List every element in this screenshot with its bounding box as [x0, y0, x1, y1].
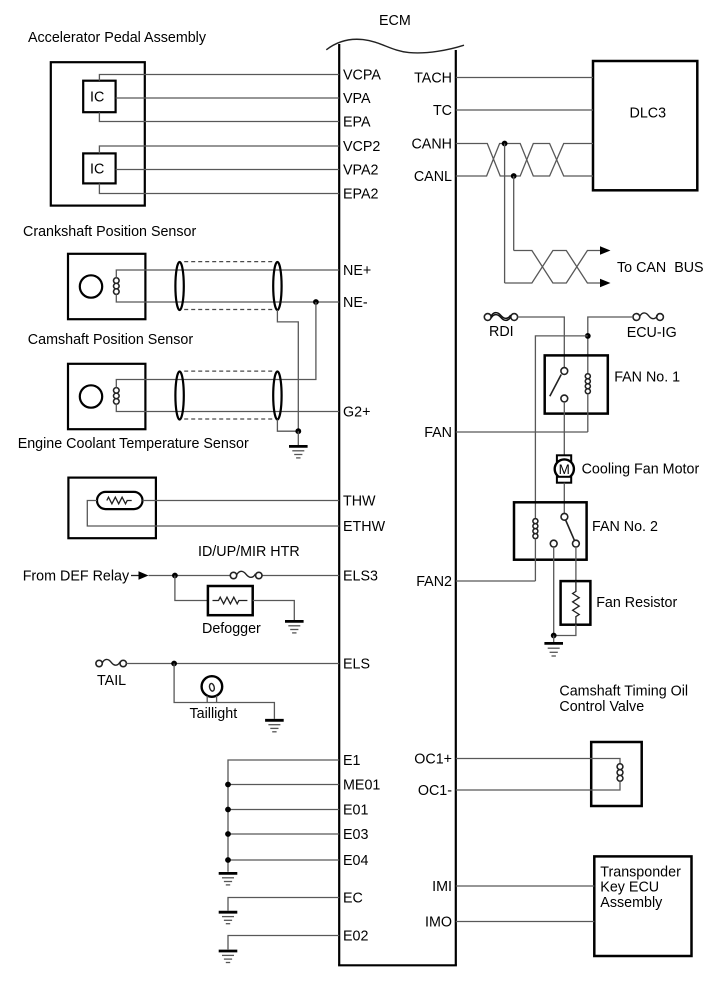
- wire G2+: [116, 404, 339, 411]
- ECT sensor box: [68, 478, 155, 539]
- wire ELS: [126, 663, 339, 665]
- transponder key ECU box: [594, 856, 691, 956]
- fusible link RDI: [484, 314, 491, 321]
- arrow CAN bus lower: [600, 279, 611, 287]
- wire E01: [228, 809, 339, 811]
- ECM wavy top edge: [326, 39, 464, 53]
- Accelerator Pedal Assembly section: [28, 30, 339, 206]
- svg-text:E02: E02: [343, 929, 368, 945]
- wire OC1+: [456, 759, 620, 764]
- wire ground stub: [297, 431, 299, 446]
- wire relay2 left contact to ground: [553, 547, 555, 636]
- svg-text:ME01: ME01: [343, 778, 380, 794]
- wire relay1 switch to motor: [563, 402, 565, 455]
- left pin labels: [343, 68, 386, 945]
- wire relay2 right contact to resistor: [575, 547, 577, 581]
- pickup coil L1: [114, 278, 120, 295]
- wire NE+: [116, 270, 339, 278]
- RDI / ECU-IG feed section: [484, 313, 676, 519]
- node fan ground junction: [551, 633, 557, 639]
- wire EC: [228, 898, 339, 911]
- svg-text:Camshaft Timing Oil: Camshaft Timing Oil: [559, 684, 688, 700]
- wire crank shield drain: [277, 310, 298, 431]
- svg-text:G2+: G2+: [343, 405, 370, 421]
- svg-text:TAIL: TAIL: [97, 673, 126, 689]
- To CAN BUS section: [505, 246, 704, 287]
- taillight bulb: [202, 676, 223, 697]
- arrow from DEF relay: [131, 575, 139, 577]
- wire CANH (twisted pair upper start): [456, 144, 593, 177]
- shield oval left (crank): [175, 262, 183, 310]
- wire VCPA: [99, 75, 339, 81]
- wire THW: [143, 500, 340, 502]
- svg-text:Control Valve: Control Valve: [559, 699, 644, 715]
- motor circle M1: [555, 459, 574, 478]
- DLC3 box: [593, 61, 697, 190]
- svg-text:ID/UP/MIR HTR: ID/UP/MIR HTR: [198, 544, 300, 560]
- relay1 coil: [585, 374, 590, 394]
- wire E03: [228, 833, 339, 835]
- svg-text:IMO: IMO: [425, 915, 452, 931]
- svg-text:CANL: CANL: [414, 169, 452, 185]
- node E03 junction: [225, 831, 231, 837]
- wire CAN bus upper: [514, 251, 601, 284]
- shield oval left (cam): [175, 372, 183, 420]
- wire ECM right edge: [455, 50, 457, 965]
- svg-text:EC: EC: [343, 891, 363, 907]
- wire relay2 coil to FAN2 pin: [534, 539, 536, 581]
- node shield ground junction: [295, 428, 301, 434]
- wire E04: [228, 859, 339, 861]
- sensor rotor circle: [80, 385, 102, 407]
- svg-text:FAN: FAN: [424, 425, 452, 441]
- wire EPA: [99, 112, 339, 121]
- svg-text:E01: E01: [343, 803, 368, 819]
- wire VPA2: [116, 169, 340, 171]
- wire motor to FAN2 switch: [563, 483, 565, 514]
- svg-text:NE+: NE+: [343, 263, 371, 279]
- wire ME01: [228, 784, 339, 786]
- wire NE-: [116, 294, 339, 302]
- node CANH tap: [502, 141, 508, 147]
- node E01 junction: [225, 807, 231, 813]
- svg-text:TACH: TACH: [414, 71, 452, 87]
- wire FAN: [456, 431, 588, 433]
- ECM body: [326, 13, 464, 965]
- IC U1 box: [83, 81, 115, 113]
- svg-text:E03: E03: [343, 827, 368, 843]
- wire ECM bottom edge: [338, 964, 457, 966]
- OCV box: [591, 742, 642, 806]
- Transponder Key ECU section: [456, 856, 692, 956]
- svg-text:Crankshaft Position Sensor: Crankshaft Position Sensor: [23, 224, 196, 240]
- wire IMI: [456, 885, 595, 887]
- ground (taillight): [265, 720, 284, 732]
- shield dashed top (crank): [184, 261, 273, 263]
- relay1 switch blade: [550, 375, 561, 397]
- shield oval right (crank): [273, 262, 281, 310]
- svg-text:EPA: EPA: [343, 115, 371, 131]
- OCV coil: [617, 764, 623, 781]
- wire defogger to ground: [253, 601, 295, 621]
- svg-text:M: M: [559, 462, 570, 477]
- svg-text:Cooling Fan Motor: Cooling Fan Motor: [582, 462, 700, 478]
- svg-text:To CAN BUS: To CAN BUS: [617, 260, 704, 276]
- svg-text:Accelerator Pedal Assembly: Accelerator Pedal Assembly: [28, 30, 207, 46]
- IC U2 box: [83, 153, 115, 183]
- node DEF junction: [172, 573, 178, 579]
- wire E02: [228, 936, 339, 950]
- svg-text:OC1-: OC1-: [418, 783, 452, 799]
- wire EPA2: [99, 183, 339, 193]
- svg-text:Transponder: Transponder: [600, 864, 681, 880]
- svg-text:Defogger: Defogger: [202, 621, 261, 637]
- svg-text:VCPA: VCPA: [343, 68, 381, 84]
- ELS3 / Defogger section: [23, 544, 340, 637]
- ground (fan): [544, 643, 563, 656]
- wire taillight branch: [174, 664, 274, 719]
- svg-text:IC: IC: [90, 90, 104, 106]
- shield dashed bottom (cam): [184, 418, 273, 420]
- motor brush top: [557, 455, 571, 461]
- svg-text:Key ECU: Key ECU: [600, 880, 659, 896]
- node TAIL junction: [171, 661, 177, 667]
- svg-text:From DEF Relay: From DEF Relay: [23, 569, 130, 585]
- E-block ground section: [219, 760, 340, 963]
- FAN No. 1 relay section: [456, 355, 680, 455]
- ground (E1/ME01/E01/E03/E04): [219, 873, 238, 885]
- wire resistor to ground: [554, 625, 576, 636]
- wire defogger branch: [175, 576, 208, 601]
- fan resistor box: [561, 581, 591, 625]
- motor brush bottom: [557, 477, 571, 483]
- shield dashed bottom (crank): [184, 309, 273, 311]
- ground (sensor shields): [289, 446, 308, 458]
- Crankshaft Position Sensor section: [23, 224, 339, 431]
- wire RDI to FAN1 switch: [518, 317, 565, 368]
- svg-text:ECM: ECM: [379, 13, 411, 29]
- svg-text:VPA2: VPA2: [343, 163, 379, 179]
- wire ELS3: [149, 575, 340, 577]
- node CANL tap: [511, 173, 517, 179]
- wire FAN2: [456, 580, 536, 582]
- svg-text:FAN2: FAN2: [416, 574, 452, 590]
- thermistor zigzag: [107, 497, 132, 504]
- defogger box: [208, 586, 253, 615]
- svg-text:CANH: CANH: [411, 137, 452, 153]
- svg-text:DLC3: DLC3: [630, 106, 667, 122]
- svg-text:TC: TC: [433, 103, 452, 119]
- svg-text:Camshaft Position Sensor: Camshaft Position Sensor: [28, 332, 194, 348]
- svg-text:VCP2: VCP2: [343, 139, 380, 155]
- wire ETHW: [87, 501, 339, 527]
- node E04 junction: [225, 857, 231, 863]
- svg-text:VPA: VPA: [343, 91, 371, 107]
- fuse ECU-IG: [633, 314, 640, 321]
- shield oval right (cam): [273, 372, 281, 420]
- svg-text:RDI: RDI: [489, 324, 514, 340]
- Engine Coolant Temperature Sensor section: [18, 436, 340, 538]
- svg-text:FAN No. 1: FAN No. 1: [614, 370, 680, 386]
- svg-text:IMI: IMI: [432, 879, 452, 895]
- wire ECM left edge: [338, 44, 340, 965]
- relay1 switch contacts: [561, 368, 568, 375]
- svg-text:IC: IC: [90, 162, 104, 178]
- svg-text:Assembly: Assembly: [600, 895, 663, 911]
- wire cam shield drain: [277, 420, 298, 432]
- svg-text:NE-: NE-: [343, 295, 368, 311]
- DLC3 section: [456, 61, 698, 283]
- resistor R1 zigzag: [573, 581, 580, 625]
- svg-text:ETHW: ETHW: [343, 519, 386, 535]
- wire camshaft signal to NE- node: [116, 302, 316, 388]
- svg-text:ECU-IG: ECU-IG: [627, 325, 677, 341]
- wire E1: [228, 760, 339, 872]
- arrow CAN bus upper: [600, 246, 611, 254]
- wire ground stub: [553, 636, 555, 643]
- svg-text:ELS: ELS: [343, 657, 370, 673]
- right pin labels: [411, 71, 452, 931]
- ground (EC): [219, 912, 238, 924]
- fuse TAIL: [96, 660, 102, 666]
- wire OC1-: [456, 781, 620, 790]
- svg-text:Engine Coolant Temperature Sen: Engine Coolant Temperature Sensor: [18, 436, 249, 452]
- pickup coil L2: [114, 388, 120, 405]
- wire TACH: [456, 77, 593, 79]
- FAN No. 2 relay section: [456, 502, 658, 635]
- Cooling Fan Motor section: [555, 455, 700, 513]
- node ME01 junction: [225, 782, 231, 788]
- defogger heater resistor: [213, 597, 248, 604]
- node ECU-IG junction: [585, 333, 591, 339]
- Camshaft Timing Oil Control Valve section: [456, 684, 688, 807]
- svg-text:THW: THW: [343, 494, 376, 510]
- wire CANL tap drop: [513, 176, 515, 251]
- Fan Resistor section: [544, 581, 677, 656]
- svg-text:OC1+: OC1+: [414, 752, 452, 768]
- wire junction to FAN2 coil: [535, 336, 587, 519]
- svg-text:Taillight: Taillight: [190, 706, 238, 722]
- node NE- junction: [313, 299, 319, 305]
- relay2 switch contacts: [561, 513, 568, 520]
- wire ECU-IG to FAN1 coil: [588, 317, 633, 374]
- wire CANL (twisted pair lower start): [456, 144, 593, 177]
- ground (defogger): [285, 621, 304, 633]
- wire TC: [456, 109, 593, 111]
- wire CAN bus lower: [505, 251, 601, 284]
- fuse ELS3 (circles and wave): [230, 572, 236, 578]
- relay FAN No.2 box: [514, 502, 587, 559]
- relay FAN No.1 box: [545, 355, 608, 413]
- svg-text:EPA2: EPA2: [343, 187, 379, 203]
- wire CANH tap drop: [504, 144, 506, 284]
- wire VCP2: [99, 146, 339, 153]
- wire relay1 coil to FAN pin: [587, 394, 589, 432]
- svg-text:E04: E04: [343, 853, 368, 869]
- relay2 coil: [533, 519, 538, 539]
- shield dashed top (cam): [184, 370, 273, 372]
- crankshaft position sensor box: [68, 254, 145, 319]
- svg-text:FAN No. 2: FAN No. 2: [592, 519, 658, 535]
- ground (E02): [219, 951, 238, 963]
- relay2 switch blade: [566, 520, 575, 541]
- ELS / Taillight section: [96, 659, 339, 731]
- accelerator pedal assembly box: [51, 62, 145, 205]
- svg-text:Fan Resistor: Fan Resistor: [596, 595, 677, 611]
- sensor rotor circle: [80, 275, 102, 297]
- svg-text:E1: E1: [343, 753, 361, 769]
- thermistor RT1 pill: [97, 492, 143, 509]
- wire IMO: [456, 921, 595, 923]
- camshaft position sensor box: [68, 364, 145, 429]
- wire VPA: [116, 97, 340, 99]
- Camshaft Position Sensor section: [28, 302, 339, 458]
- svg-text:ELS3: ELS3: [343, 569, 378, 585]
